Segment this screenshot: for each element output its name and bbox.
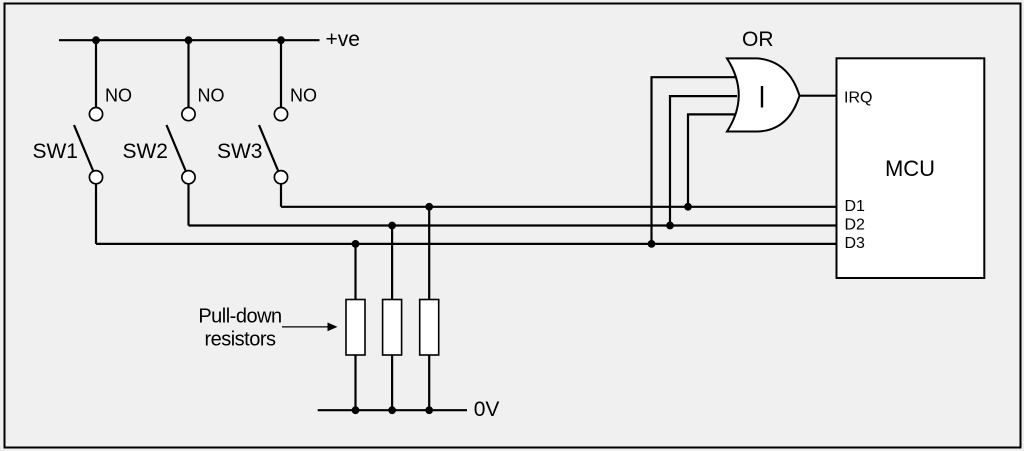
svg-text:SW1: SW1 [32,140,78,163]
svg-text:OR: OR [742,28,774,51]
junction on +ve rail at SW1 [92,36,100,44]
junction R1 on 0V rail [352,406,360,414]
wire rail to SW1 top contact [95,40,97,107]
junction R1 tap on D3 line [352,240,360,248]
resistor R3 [420,300,439,356]
annotation pull-down resistors [198,305,281,350]
wire rail to SW3 top contact [280,40,282,107]
MCU box [837,58,985,278]
junction riser1 on D3 [648,240,656,248]
svg-text:resistors: resistors [204,328,276,350]
wire SW1 to D3 line [95,184,97,244]
or-gate bar symbol [761,86,763,108]
svg-text:0V: 0V [474,398,500,421]
switch SW2 [122,108,195,184]
resistor R2 [383,300,402,356]
svg-text:D3: D3 [845,235,866,252]
switch SW1 [32,108,102,184]
svg-text:Pull-down: Pull-down [198,305,281,327]
wire riser D1 to OR input 3 [688,114,737,206]
wire D1 line to MCU [281,206,837,208]
annotation arrow [282,323,338,332]
wire SW2 to D2 line [187,184,189,226]
svg-text:D2: D2 [845,217,866,234]
resistor R1 [346,300,365,356]
svg-text:NO: NO [290,85,317,105]
svg-text:MCU: MCU [885,156,935,181]
junction riser2 on D2 [666,222,674,230]
svg-text:IRQ: IRQ [844,90,872,107]
svg-text:SW3: SW3 [217,140,263,163]
or-gate body [727,58,800,131]
MCU U2 [837,58,985,278]
wire R3 vertical [428,207,430,410]
svg-text:SW2: SW2 [122,140,168,163]
wire D2 line to MCU [189,224,837,226]
junction on +ve rail at SW2 [185,36,193,44]
junction on +ve rail at SW3 [277,36,285,44]
svg-text:NO: NO [105,85,132,105]
wire +ve rail [59,39,320,41]
switch SW3 [217,108,288,184]
or-gate U1 [727,28,800,132]
junction R3 on 0V rail [425,406,433,414]
wire riser D3 to OR input 1 [652,77,738,244]
wire riser D2 to OR input 2 [670,96,737,225]
wire 0V rail [318,409,467,411]
wire R2 vertical [391,226,393,411]
junction riser3 on D1 [684,203,692,211]
svg-text:D1: D1 [845,198,866,215]
wire SW3 to D1 line [280,184,282,207]
svg-text:+ve: +ve [326,28,360,51]
svg-text:NO: NO [198,85,225,105]
wire rail to SW2 top contact [187,40,189,107]
junction R2 tap on D2 line [388,222,396,230]
junction R2 on 0V rail [388,406,396,414]
junction R3 tap on D1 line [425,203,433,211]
wire R1 vertical [354,244,356,410]
wire D3 line to MCU [96,243,837,245]
wire OR output to MCU IRQ [798,95,837,97]
